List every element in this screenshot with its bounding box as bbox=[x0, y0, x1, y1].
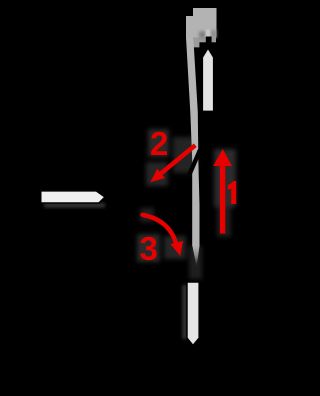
label 1 bbox=[228, 181, 236, 204]
ornament cross stem bbox=[206, 37, 212, 44]
svg-text:3: 3 bbox=[140, 230, 158, 267]
arrow 1 shaft bbox=[220, 163, 225, 234]
break slash on channel bbox=[189, 150, 200, 175]
arrow 2 shaft bbox=[161, 145, 195, 173]
needle highlight streak at block junction bbox=[206, 30, 211, 38]
block bottom smudge right bbox=[211, 30, 216, 38]
ornament cross bar bbox=[200, 42, 216, 47]
arrow 3 curved shaft bbox=[143, 215, 177, 245]
downward channel (slanted conductor) bbox=[186, 38, 200, 247]
svg-text:2: 2 bbox=[150, 125, 168, 162]
arrow 1 head bbox=[213, 149, 232, 166]
left electrode fill bbox=[42, 192, 104, 203]
block bottom smudge left bbox=[199, 32, 205, 39]
ground electrode shadow bbox=[182, 285, 187, 339]
upper terminal block bbox=[186, 8, 217, 38]
ground electrode fill bbox=[188, 283, 199, 345]
arrow 3 head bbox=[171, 241, 184, 256]
ground electrode outline bbox=[186, 281, 200, 347]
compression halo group bbox=[137, 129, 236, 279]
channel tip taper bbox=[192, 246, 199, 267]
arrow 2 head bbox=[150, 169, 165, 183]
left electrode shadow bbox=[44, 203, 105, 207]
upper streamer electrode outline bbox=[201, 44, 215, 114]
block lower lip beside ornament stem bbox=[193, 38, 216, 48]
left electrode outline bbox=[40, 190, 105, 203]
upper streamer electrode fill bbox=[203, 50, 213, 111]
